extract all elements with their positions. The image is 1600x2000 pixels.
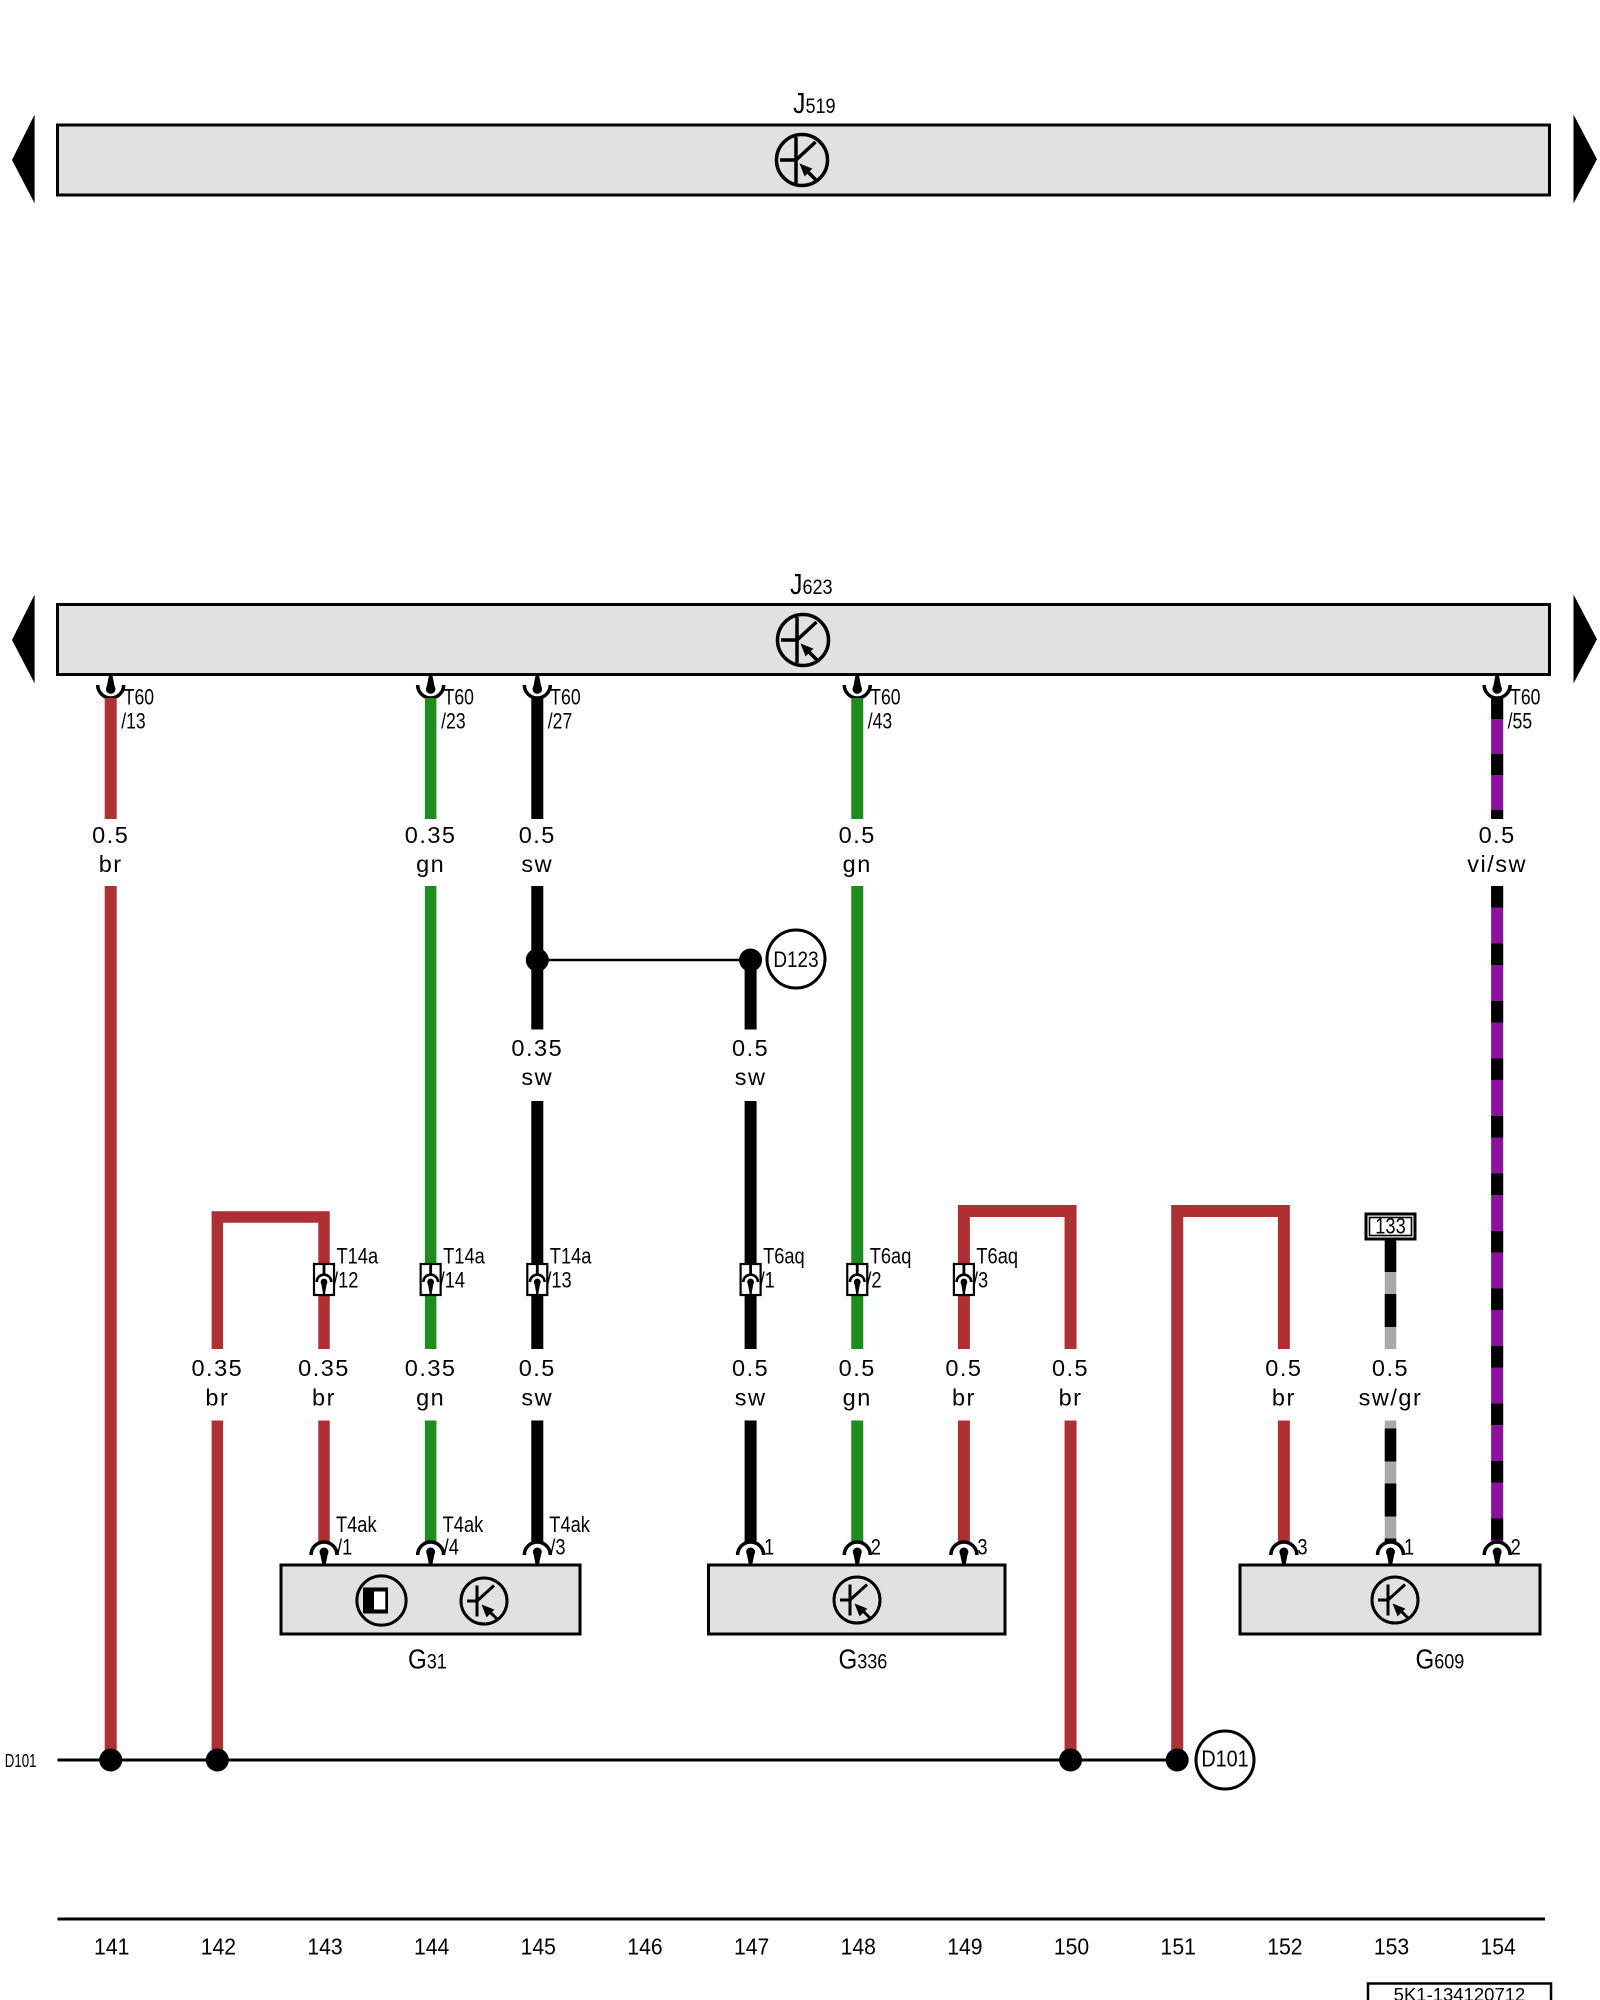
label D101 left margin bbox=[5, 1751, 37, 1772]
wire 0.35 gn lower segment to G31 pin 4 bbox=[425, 1421, 437, 1543]
label T4ak/1 bbox=[336, 1514, 377, 1560]
terminal 133 designation box bbox=[1366, 1214, 1415, 1239]
wire 0.5 sw lower segment to G336 pin 1 bbox=[745, 1421, 757, 1543]
svg-text:sw: sw bbox=[735, 1385, 767, 1411]
pin number 3 bbox=[977, 1536, 987, 1560]
svg-text:1: 1 bbox=[764, 1536, 774, 1560]
svg-text:151: 151 bbox=[1161, 1934, 1196, 1960]
track number 148 bbox=[841, 1934, 876, 1960]
wire 0.35 br lower segment col142 to ground rail D101 bbox=[212, 1421, 224, 1761]
in-line connector T14a/14 bbox=[421, 1264, 441, 1295]
wire label 0.5 gn bbox=[839, 822, 876, 877]
J623 right continuation arrow bbox=[1574, 595, 1598, 684]
J623 electronics symbol bbox=[778, 615, 829, 666]
label T14a/14 bbox=[440, 1245, 486, 1293]
svg-text:br: br bbox=[205, 1385, 229, 1411]
junction dot on col145 bbox=[526, 949, 549, 972]
wire 0.35 sw segment through T14a/13 bbox=[531, 1101, 543, 1349]
svg-text:0.5: 0.5 bbox=[1479, 822, 1516, 848]
wire 0.5 br bridge loop col149-col150 bbox=[964, 1211, 1071, 1349]
svg-text:0.35: 0.35 bbox=[405, 822, 457, 848]
svg-text:T4ak: T4ak bbox=[443, 1514, 484, 1538]
svg-text:0.5: 0.5 bbox=[839, 1355, 876, 1381]
svg-text:/55: /55 bbox=[1508, 710, 1532, 734]
wire 0.5 sw from splice D123 down bbox=[745, 960, 757, 1030]
in-line connector T6aq/1 bbox=[741, 1264, 761, 1295]
svg-text:/4: /4 bbox=[444, 1536, 459, 1560]
svg-text:144: 144 bbox=[414, 1934, 449, 1960]
svg-text:T14a: T14a bbox=[550, 1245, 592, 1269]
svg-text:0.35: 0.35 bbox=[298, 1355, 350, 1381]
wire 0.5 br bridge loop col151-col152 bbox=[1177, 1211, 1284, 1760]
wire label 0.5 br bbox=[1265, 1355, 1302, 1411]
svg-text:T14a: T14a bbox=[443, 1245, 485, 1269]
track number 149 bbox=[947, 1934, 982, 1960]
label T60/55 bbox=[1508, 686, 1541, 734]
svg-text:br: br bbox=[952, 1385, 976, 1411]
track number 147 bbox=[734, 1934, 769, 1960]
svg-text:vi/sw: vi/sw bbox=[1467, 851, 1527, 877]
connector pin T60/43 on J623 bbox=[844, 675, 870, 699]
track number 144 bbox=[414, 1934, 449, 1960]
label J519 bbox=[793, 87, 836, 119]
svg-text:143: 143 bbox=[307, 1934, 342, 1960]
svg-text:/13: /13 bbox=[121, 710, 145, 734]
label J623 bbox=[790, 568, 833, 600]
svg-text:T4ak: T4ak bbox=[549, 1514, 590, 1538]
svg-text:154: 154 bbox=[1481, 1934, 1516, 1960]
wire 0.5 sw segment through splice D123 bbox=[531, 886, 543, 1030]
junction dot col151 bbox=[1166, 1749, 1189, 1772]
track number 151 bbox=[1161, 1934, 1196, 1960]
wire 0.5 br lower segment col152 to G609 pin 3 bbox=[1278, 1421, 1290, 1543]
current track scale line bbox=[58, 1918, 1546, 1921]
svg-text:gn: gn bbox=[416, 851, 445, 877]
svg-text:153: 153 bbox=[1374, 1934, 1409, 1960]
svg-text:149: 149 bbox=[947, 1934, 982, 1960]
svg-text:0.5: 0.5 bbox=[92, 822, 129, 848]
svg-text:sw: sw bbox=[521, 1064, 553, 1090]
wire label 0.5 sw bbox=[519, 822, 556, 877]
svg-text:/3: /3 bbox=[973, 1269, 988, 1293]
svg-text:/13: /13 bbox=[546, 1269, 571, 1293]
G609 pin 2 bbox=[1484, 1542, 1510, 1566]
svg-text:/1: /1 bbox=[760, 1269, 775, 1293]
svg-text:2: 2 bbox=[871, 1536, 881, 1560]
engine control unit bus bar J623 bbox=[58, 605, 1550, 675]
track number 154 bbox=[1481, 1934, 1516, 1960]
svg-text:0.5: 0.5 bbox=[519, 1355, 556, 1381]
ground designation circle D101 bbox=[1196, 1731, 1254, 1789]
svg-text:0.5: 0.5 bbox=[1372, 1355, 1409, 1381]
label T14a/13 bbox=[546, 1245, 592, 1293]
label T60/27 bbox=[548, 686, 581, 734]
G31 pin T4ak/3 bbox=[524, 1542, 550, 1566]
svg-text:1: 1 bbox=[1404, 1536, 1414, 1560]
label T6aq/1 bbox=[760, 1245, 805, 1293]
wire label 0.5 br bbox=[945, 1355, 982, 1411]
wire label 0.5 br bbox=[1052, 1355, 1089, 1411]
svg-text:2: 2 bbox=[1511, 1536, 1521, 1560]
wire label 0.5 sw bbox=[732, 1355, 769, 1411]
wire 0.5 br lower segment col149 to G336 pin 3 bbox=[958, 1421, 970, 1543]
svg-text:147: 147 bbox=[734, 1934, 769, 1960]
svg-text:0.5: 0.5 bbox=[945, 1355, 982, 1381]
track number 145 bbox=[521, 1934, 556, 1960]
svg-text:0.35: 0.35 bbox=[405, 1355, 457, 1381]
connector pin T60/55 on J623 bbox=[1484, 675, 1510, 699]
label T4ak/3 bbox=[549, 1514, 590, 1560]
svg-text:/23: /23 bbox=[441, 710, 465, 734]
track number 143 bbox=[307, 1934, 342, 1960]
svg-text:5K1-134120712: 5K1-134120712 bbox=[1394, 1984, 1526, 2000]
G31 pin T4ak/1 bbox=[311, 1542, 337, 1566]
svg-text:T60: T60 bbox=[550, 686, 580, 710]
label T60/23 bbox=[441, 686, 474, 734]
svg-text:0.5: 0.5 bbox=[732, 1035, 769, 1061]
svg-text:T6aq: T6aq bbox=[870, 1245, 912, 1269]
J519 left continuation arrow bbox=[12, 115, 35, 204]
junction dot col141 bbox=[99, 1749, 122, 1772]
svg-text:/14: /14 bbox=[440, 1269, 465, 1293]
wire 0.5 vi/sw from J623 T60/55, upper segment bbox=[1491, 698, 1503, 819]
track number 150 bbox=[1054, 1934, 1089, 1960]
svg-text:0.5: 0.5 bbox=[1052, 1355, 1089, 1381]
svg-text:T60: T60 bbox=[870, 686, 900, 710]
svg-text:152: 152 bbox=[1267, 1934, 1302, 1960]
junction dot col142 bbox=[206, 1749, 229, 1772]
svg-text:0.5: 0.5 bbox=[1265, 1355, 1302, 1381]
wire 0.5 sw lower segment to G31 pin 3 bbox=[531, 1421, 543, 1543]
svg-text:br: br bbox=[1272, 1385, 1296, 1411]
pin number 2 bbox=[871, 1536, 881, 1560]
connector pin T60/27 on J623 bbox=[524, 675, 550, 699]
pin number 1 bbox=[764, 1536, 774, 1560]
G31 sensor symbol bbox=[357, 1576, 406, 1625]
svg-text:gn: gn bbox=[843, 851, 872, 877]
G609 pin 1 bbox=[1378, 1542, 1404, 1566]
J623 left continuation arrow bbox=[12, 595, 35, 684]
splice wire from D123 junction bbox=[537, 959, 750, 962]
G609 electronics symbol bbox=[1372, 1577, 1418, 1623]
in-line connector T14a/12 bbox=[314, 1264, 334, 1295]
svg-text:0.35: 0.35 bbox=[511, 1035, 563, 1061]
J519 electronics symbol bbox=[777, 135, 828, 186]
svg-text:0.5: 0.5 bbox=[839, 822, 876, 848]
wire 0.35 br lower segment col143 to G31 pin 1 bbox=[318, 1421, 330, 1543]
in-line connector T6aq/2 bbox=[847, 1264, 867, 1295]
svg-text:T14a: T14a bbox=[337, 1245, 379, 1269]
wire label 0.35 br bbox=[298, 1355, 350, 1411]
in-line connector T14a/13 bbox=[527, 1264, 547, 1295]
svg-text:D101: D101 bbox=[5, 1751, 37, 1772]
splice designation circle D123 bbox=[767, 930, 825, 988]
svg-text:/12: /12 bbox=[333, 1269, 358, 1293]
svg-text:146: 146 bbox=[627, 1934, 662, 1960]
label T60/13 bbox=[121, 686, 154, 734]
label G31 bbox=[408, 1643, 447, 1675]
wire label 0.35 br bbox=[191, 1355, 243, 1411]
svg-text:/27: /27 bbox=[548, 710, 572, 734]
label T4ak/4 bbox=[443, 1514, 484, 1560]
svg-text:148: 148 bbox=[841, 1934, 876, 1960]
sender G31 box bbox=[281, 1565, 580, 1634]
svg-text:/2: /2 bbox=[866, 1269, 881, 1293]
track number 142 bbox=[201, 1934, 236, 1960]
svg-text:gn: gn bbox=[843, 1385, 872, 1411]
svg-text:T6aq: T6aq bbox=[763, 1245, 805, 1269]
wire 0.35 gn middle segment through T14a/14 bbox=[425, 886, 437, 1349]
svg-text:T4ak: T4ak bbox=[336, 1514, 377, 1538]
svg-text:T60: T60 bbox=[444, 686, 474, 710]
svg-text:T6aq: T6aq bbox=[976, 1245, 1018, 1269]
wire 0.5 br from J623 T60/13, upper segment bbox=[105, 698, 117, 819]
wire 0.5 sw segment through T6aq/1 bbox=[745, 1101, 757, 1349]
svg-text:br: br bbox=[1059, 1385, 1083, 1411]
wire label 0.5 gn bbox=[839, 1355, 876, 1411]
wire label 0.35 sw bbox=[511, 1035, 563, 1090]
svg-text:/1: /1 bbox=[337, 1536, 352, 1560]
wire 0.5 gn lower segment to G336 pin 2 bbox=[851, 1421, 863, 1543]
svg-text:133: 133 bbox=[1375, 1214, 1405, 1239]
svg-text:0.35: 0.35 bbox=[191, 1355, 243, 1381]
svg-text:sw: sw bbox=[521, 1385, 553, 1411]
wire label 0.5 vi/sw bbox=[1467, 822, 1527, 877]
track number 141 bbox=[94, 1934, 129, 1960]
junction dot col150 bbox=[1059, 1749, 1082, 1772]
label G609 bbox=[1416, 1643, 1465, 1675]
svg-text:D101: D101 bbox=[1201, 1746, 1248, 1772]
wire 0.5 br lower segment down to ground rail D101 bbox=[105, 886, 117, 1760]
sender G336 box bbox=[709, 1565, 1006, 1634]
G609 pin 3 bbox=[1271, 1542, 1297, 1566]
J519 right continuation arrow bbox=[1574, 115, 1598, 204]
wire 0.5 sw/gr upper segment from 133 bbox=[1385, 1239, 1397, 1349]
track number 152 bbox=[1267, 1934, 1302, 1960]
G336 pin 1 bbox=[738, 1542, 764, 1566]
G31 pin T4ak/4 bbox=[418, 1542, 444, 1566]
label T6aq/3 bbox=[973, 1245, 1018, 1293]
control unit bus bar J519 bbox=[58, 125, 1550, 195]
svg-text:sw: sw bbox=[521, 851, 553, 877]
svg-text:141: 141 bbox=[94, 1934, 129, 1960]
wire label 0.35 gn bbox=[405, 822, 457, 877]
svg-text:3: 3 bbox=[977, 1536, 987, 1560]
svg-text:br: br bbox=[312, 1385, 336, 1411]
wire label 0.5 br bbox=[92, 822, 129, 877]
pin number 1 bbox=[1404, 1536, 1414, 1560]
wire 0.5 gn from J623 T60/43, upper segment bbox=[851, 698, 863, 819]
wire label 0.35 gn bbox=[405, 1355, 457, 1411]
wire 0.35 br bridge loop col142-col143 bbox=[217, 1217, 324, 1349]
label T14a/12 bbox=[333, 1245, 379, 1293]
svg-text:gn: gn bbox=[416, 1385, 445, 1411]
svg-text:0.5: 0.5 bbox=[519, 822, 556, 848]
wire 0.35 gn from J623 T60/23, upper segment bbox=[425, 698, 437, 819]
svg-text:/3: /3 bbox=[550, 1536, 565, 1560]
svg-text:0.5: 0.5 bbox=[732, 1355, 769, 1381]
wire 0.5 br lower segment col150 to ground rail D101 bbox=[1065, 1421, 1077, 1761]
wire 0.5 sw from J623 T60/27, upper segment bbox=[531, 698, 543, 819]
track number 153 bbox=[1374, 1934, 1409, 1960]
svg-text:D123: D123 bbox=[773, 948, 818, 973]
connector pin T60/23 on J623 bbox=[418, 675, 444, 699]
label G336 bbox=[839, 1643, 888, 1675]
svg-text:3: 3 bbox=[1297, 1536, 1307, 1560]
svg-text:T60: T60 bbox=[124, 686, 154, 710]
svg-text:145: 145 bbox=[521, 1934, 556, 1960]
svg-text:sw/gr: sw/gr bbox=[1359, 1385, 1423, 1411]
wire 0.5 gn segment through T6aq/2 bbox=[851, 886, 863, 1349]
connector pin T60/13 on J623 bbox=[98, 675, 124, 699]
svg-text:br: br bbox=[99, 851, 123, 877]
label T6aq/2 bbox=[866, 1245, 911, 1293]
document number box 5K1-134120712 bbox=[1368, 1984, 1551, 2000]
in-line connector T6aq/3 bbox=[954, 1264, 974, 1295]
G336 electronics symbol bbox=[834, 1577, 880, 1623]
G31 electronics symbol bbox=[461, 1578, 507, 1624]
svg-text:T60: T60 bbox=[1510, 686, 1540, 710]
pin number 3 bbox=[1297, 1536, 1307, 1560]
G336 pin 3 bbox=[951, 1542, 977, 1566]
G336 pin 2 bbox=[844, 1542, 870, 1566]
ground rail D101 wire bbox=[58, 1759, 1178, 1762]
wire label 0.5 sw bbox=[732, 1035, 769, 1090]
svg-text:142: 142 bbox=[201, 1934, 236, 1960]
junction dot on col147 bbox=[739, 949, 762, 972]
wire label 0.5 sw bbox=[519, 1355, 556, 1411]
svg-text:sw: sw bbox=[735, 1064, 767, 1090]
label T60/43 bbox=[868, 686, 901, 734]
svg-text:/43: /43 bbox=[868, 710, 892, 734]
track number 146 bbox=[627, 1934, 662, 1960]
sender G609 box bbox=[1240, 1565, 1540, 1634]
wire label 0.5 sw/gr bbox=[1359, 1355, 1423, 1411]
pin number 2 bbox=[1511, 1536, 1521, 1560]
svg-text:150: 150 bbox=[1054, 1934, 1089, 1960]
wire 0.5 sw/gr lower segment to G609 pin 1 bbox=[1385, 1421, 1397, 1543]
wire 0.5 vi/sw long segment to G609 pin 2 bbox=[1491, 886, 1503, 1542]
